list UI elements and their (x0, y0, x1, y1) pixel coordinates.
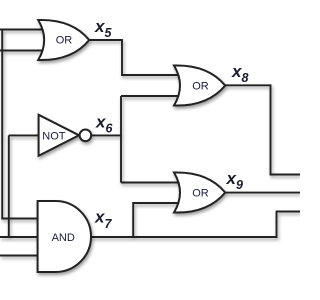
svg-text:OR: OR (192, 80, 209, 92)
svg-text:OR: OR (56, 34, 73, 46)
svg-text:NOT: NOT (42, 131, 66, 143)
svg-text:AND: AND (52, 232, 75, 244)
svg-text:OR: OR (192, 187, 209, 199)
